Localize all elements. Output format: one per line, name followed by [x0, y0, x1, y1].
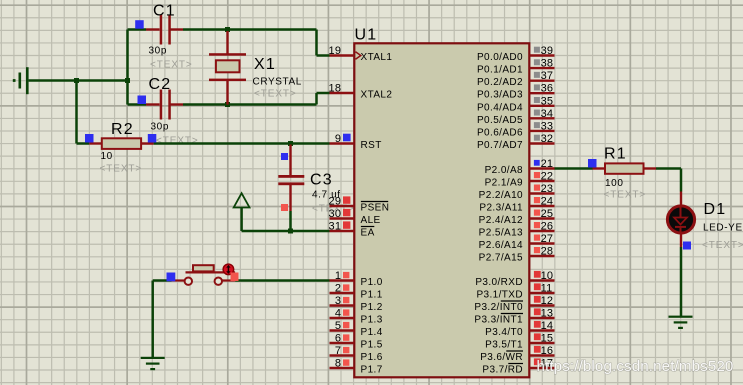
svg-text:P2.1/A9: P2.1/A9	[485, 178, 523, 189]
svg-text:P0.4/AD4: P0.4/AD4	[477, 102, 523, 113]
svg-text:23: 23	[541, 183, 554, 195]
svg-text:P3.5/T1: P3.5/T1	[485, 340, 523, 351]
svg-text:6: 6	[335, 333, 341, 345]
svg-text:28: 28	[541, 246, 554, 258]
svg-text:P1.6: P1.6	[361, 352, 383, 363]
svg-text:15: 15	[541, 333, 554, 345]
svg-text:P2.7/A15: P2.7/A15	[479, 253, 523, 264]
svg-text:5: 5	[335, 320, 341, 332]
svg-text:16: 16	[541, 345, 554, 357]
svg-text:12: 12	[541, 295, 554, 307]
svg-text:P1.7: P1.7	[361, 365, 383, 376]
svg-text:P2.2/A10: P2.2/A10	[479, 190, 523, 201]
svg-text:10: 10	[101, 151, 113, 162]
svg-text:24: 24	[541, 196, 554, 208]
svg-text:P0.1/AD1: P0.1/AD1	[477, 65, 523, 76]
svg-text:P1.2: P1.2	[361, 302, 383, 313]
svg-text:P3.3/INT1: P3.3/INT1	[474, 315, 523, 326]
svg-text:CRYSTAL: CRYSTAL	[253, 77, 302, 88]
svg-text:31: 31	[329, 221, 342, 233]
svg-text:30p: 30p	[151, 122, 170, 133]
svg-text:P3.1/TXD: P3.1/TXD	[476, 290, 523, 301]
svg-text:10: 10	[541, 270, 554, 282]
svg-text:P3.4/T0: P3.4/T0	[485, 327, 523, 338]
svg-text:26: 26	[541, 221, 554, 233]
svg-text:2: 2	[335, 283, 341, 295]
svg-text:13: 13	[541, 308, 554, 320]
svg-text:8: 8	[335, 358, 341, 370]
svg-text:1: 1	[335, 270, 341, 282]
svg-text:P2.0/A8: P2.0/A8	[485, 165, 523, 176]
svg-text:<TEXT>: <TEXT>	[254, 89, 297, 100]
svg-text:25: 25	[541, 208, 554, 220]
svg-text:R2: R2	[111, 121, 134, 138]
svg-text:18: 18	[329, 83, 342, 95]
svg-text:P1.4: P1.4	[361, 327, 383, 338]
svg-text:27: 27	[541, 233, 554, 245]
svg-text:4.7 uf: 4.7 uf	[312, 190, 341, 201]
svg-text:9: 9	[335, 133, 341, 145]
svg-text:https://blog.csdn.net/mbs520: https://blog.csdn.net/mbs520	[537, 358, 734, 375]
svg-text:P0.0/AD0: P0.0/AD0	[477, 52, 523, 63]
svg-text:P3.2/INT0: P3.2/INT0	[474, 302, 523, 313]
svg-text:P3.0/RXD: P3.0/RXD	[475, 277, 523, 288]
svg-text:39: 39	[541, 45, 554, 57]
svg-text:P1.5: P1.5	[361, 340, 383, 351]
svg-text:P2.6/A14: P2.6/A14	[479, 240, 523, 251]
svg-text:C1: C1	[153, 3, 176, 20]
svg-text:7: 7	[335, 345, 341, 357]
svg-text:X1: X1	[254, 56, 276, 73]
svg-text:LED-YELLOW: LED-YELLOW	[703, 223, 743, 234]
svg-text:36: 36	[541, 83, 554, 95]
svg-text:<TEXT>: <TEXT>	[156, 136, 199, 147]
svg-text:P1.0: P1.0	[361, 277, 383, 288]
svg-text:11: 11	[541, 283, 553, 295]
svg-text:P3.7/RD: P3.7/RD	[482, 365, 523, 376]
svg-text:<TEXT>: <TEXT>	[150, 60, 193, 71]
svg-text:30: 30	[329, 208, 342, 220]
svg-text:22: 22	[541, 171, 554, 183]
svg-text:38: 38	[541, 58, 554, 70]
svg-text:P2.3/A11: P2.3/A11	[479, 203, 523, 214]
svg-text:4: 4	[335, 308, 341, 320]
svg-text:30p: 30p	[149, 46, 168, 57]
svg-text:<TEXT>: <TEXT>	[702, 240, 743, 251]
svg-text:P1.3: P1.3	[361, 315, 383, 326]
svg-text:34: 34	[541, 108, 554, 120]
svg-text:PSEN: PSEN	[361, 203, 390, 214]
svg-text:33: 33	[541, 120, 554, 132]
svg-text:21: 21	[541, 158, 554, 170]
svg-text:14: 14	[541, 320, 554, 332]
svg-text:EA: EA	[361, 228, 375, 239]
svg-text:32: 32	[541, 133, 554, 145]
svg-text:P1.1: P1.1	[361, 290, 383, 301]
svg-text:P0.5/AD5: P0.5/AD5	[477, 115, 523, 126]
svg-text:P0.2/AD2: P0.2/AD2	[477, 77, 523, 88]
svg-text:19: 19	[329, 45, 342, 57]
svg-text:<TEXT>: <TEXT>	[604, 190, 647, 201]
svg-text:37: 37	[541, 70, 554, 82]
svg-text:<TEXT>: <TEXT>	[100, 164, 143, 175]
svg-text:P2.4/A12: P2.4/A12	[479, 215, 523, 226]
svg-text:R1: R1	[604, 146, 627, 163]
svg-text:ALE: ALE	[361, 215, 381, 226]
svg-text:P0.6/AD6: P0.6/AD6	[477, 127, 523, 138]
svg-text:C3: C3	[310, 172, 333, 189]
svg-text:100: 100	[605, 178, 624, 189]
svg-text:P2.5/A13: P2.5/A13	[479, 228, 523, 239]
svg-text:P0.7/AD7: P0.7/AD7	[477, 140, 523, 151]
svg-text:U1: U1	[355, 27, 378, 44]
svg-text:XTAL2: XTAL2	[361, 90, 393, 101]
svg-text:XTAL1: XTAL1	[361, 52, 393, 63]
svg-text:35: 35	[541, 95, 554, 107]
svg-text:D1: D1	[704, 201, 727, 218]
svg-text:C2: C2	[149, 76, 172, 93]
svg-text:P3.6/WR: P3.6/WR	[480, 352, 523, 363]
svg-text:P0.3/AD3: P0.3/AD3	[477, 90, 523, 101]
svg-text:3: 3	[335, 295, 341, 307]
svg-text:RST: RST	[361, 140, 382, 151]
